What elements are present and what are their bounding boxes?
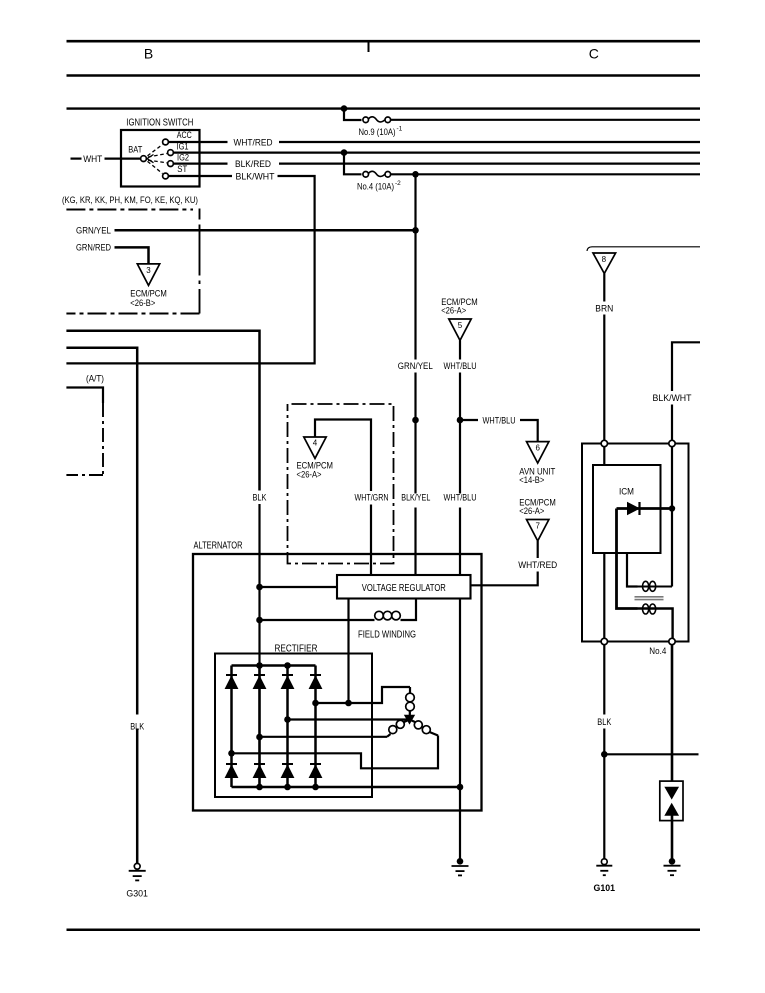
field winding coil: [375, 611, 384, 620]
spark gap arrows: [665, 787, 678, 798]
wire bottom border line: [67, 928, 701, 931]
wire WHT/RED from connector 7 to voltage regulator: [537, 541, 539, 558]
ground G101: [601, 859, 607, 865]
svg-text:BLK: BLK: [253, 493, 267, 503]
fuse No.9: [363, 117, 369, 123]
svg-text:3: 3: [146, 266, 151, 275]
wire alternator case ground: [459, 787, 461, 859]
svg-text:BRN: BRN: [595, 303, 613, 313]
svg-text:IGNITION SWITCH: IGNITION SWITCH: [126, 118, 193, 129]
svg-text:WHT/RED: WHT/RED: [518, 560, 557, 570]
svg-text:(A/T): (A/T): [86, 373, 104, 383]
switch contact ST: [163, 173, 169, 179]
terminal circles top: [601, 440, 607, 446]
svg-text:No.4: No.4: [649, 646, 666, 656]
svg-text:VOLTAGE REGULATOR: VOLTAGE REGULATOR: [362, 583, 446, 594]
wire dash-dot bottom of 26-B branch: [66, 313, 199, 315]
wire stator phase 1: [316, 687, 411, 703]
alternator box: [193, 554, 482, 811]
node junction diode-BLK/WHT: [669, 505, 675, 511]
svg-text:(KG, KR, KK, PH, KM, FO, KE, K: (KG, KR, KK, PH, KM, FO, KE, KQ, KU): [62, 195, 198, 205]
switch contact IG2: [168, 161, 174, 167]
diode ICM output: [617, 507, 670, 510]
ground spark tester: [669, 858, 676, 865]
wire IG1 row: [200, 152, 701, 154]
svg-text:No.9 (10A): No.9 (10A): [359, 127, 396, 137]
svg-text:5: 5: [458, 321, 463, 330]
wire BLK main vertical in alternator: [258, 504, 260, 787]
wire second bus line: [67, 74, 701, 77]
wire secondary to spark tester: [671, 645, 674, 787]
stator coil 1: [409, 687, 411, 694]
rectifier bottom bus: [232, 786, 461, 789]
node junction stator phase1 tap: [312, 700, 319, 707]
svg-text:IG2: IG2: [177, 153, 189, 163]
node junction stator neutral tap: [284, 716, 291, 723]
svg-text:BAT: BAT: [128, 144, 143, 154]
ground alternator case: [457, 858, 464, 865]
spark tester box: [660, 781, 683, 821]
voltage regulator box: [337, 575, 471, 599]
svg-text:G101: G101: [594, 883, 616, 893]
svg-text:C: C: [589, 45, 599, 61]
rectifier branch 4: [314, 666, 317, 788]
svg-text:<14-B>: <14-B>: [519, 475, 544, 485]
wire BLK to voltage regulator: [260, 586, 338, 588]
wire battery feed line to fuse No.9: [67, 107, 701, 109]
node junctions bottom bus: [256, 784, 263, 791]
svg-text:BLK/WHT: BLK/WHT: [236, 171, 276, 181]
wire WHT/BLU tap to AVN UNIT: [460, 419, 478, 421]
svg-text:BLK: BLK: [597, 717, 611, 727]
wire top bus line B/C: [67, 40, 701, 43]
rectifier top bus: [232, 664, 316, 667]
wire stator phase 2: [260, 736, 388, 738]
rectifier box: [215, 654, 372, 798]
svg-text:WHT/BLU: WHT/BLU: [483, 415, 516, 425]
node junction WHT/BLU to AVN tap: [457, 417, 464, 424]
wire fuse No.9 drop: [344, 109, 362, 120]
svg-text:ACC: ACC: [177, 130, 193, 140]
svg-text:GRN/YEL: GRN/YEL: [398, 361, 433, 371]
svg-text:G301: G301: [126, 889, 148, 899]
switch contact IG1: [168, 150, 174, 156]
field winding wire left: [260, 619, 375, 621]
svg-text:6: 6: [535, 444, 540, 453]
svg-text:BLK: BLK: [130, 721, 144, 731]
svg-text:4: 4: [313, 439, 318, 448]
wire IG2 / BLK/RED row: [200, 163, 228, 165]
diode top row: [226, 675, 321, 688]
svg-text:No.4 (10A): No.4 (10A): [357, 182, 394, 192]
node junction branch3-top bus: [284, 662, 291, 669]
svg-text:ICM: ICM: [619, 486, 634, 496]
svg-text:<26-A>: <26-A>: [441, 305, 466, 315]
wire fuse No.4 drop: [344, 153, 362, 175]
connector 6 AVN UNIT 14-B: [527, 442, 549, 463]
wire left BLK feeder (to alternator): [66, 331, 259, 491]
connector 7 ECM/PCM 26-A: [527, 520, 549, 541]
node junction GRN/YEL to vertical: [412, 227, 419, 234]
wire VR bottom WHT/BLU continuation to case ground bus: [459, 599, 461, 787]
node junction BLK-field winding: [256, 617, 263, 624]
wire stator phase 3: [232, 736, 439, 769]
node junction BLK ground bus: [601, 751, 608, 758]
svg-text:WHT/BLU: WHT/BLU: [444, 493, 477, 503]
svg-text:WHT: WHT: [83, 154, 103, 164]
wire (A/T) branch: [66, 388, 103, 404]
svg-text:BLK/YEL: BLK/YEL: [401, 493, 430, 503]
distributor outer box: [582, 444, 689, 642]
svg-text:GRN/RED: GRN/RED: [76, 243, 111, 253]
node junction VR drop to phase1: [345, 700, 352, 707]
wire WHT/GRN hook to connector 4: [315, 420, 371, 492]
rectifier branch 2: [258, 666, 261, 788]
wire BRN into ICM: [603, 447, 605, 465]
svg-text:WHT/GRN: WHT/GRN: [355, 493, 389, 503]
wire stator neutral: [288, 718, 410, 720]
node junction fuse No.4 output to GRN/YEL drop: [412, 171, 419, 178]
wire BLK/WHT branch to distributor: [672, 342, 700, 391]
wire dashed vertical 26-B branch: [199, 209, 201, 220]
node junction BLK-VR: [256, 584, 263, 591]
rectifier branch 1: [230, 666, 233, 788]
ignition coil core: [635, 596, 664, 598]
svg-text:GRN/YEL: GRN/YEL: [76, 226, 111, 236]
stator coil 2: [387, 734, 391, 737]
wire ICM to bottom terminal: [603, 553, 605, 638]
node stator Y center: [405, 715, 415, 723]
svg-text:ST: ST: [177, 164, 188, 174]
svg-text:BLK/WHT: BLK/WHT: [653, 393, 693, 403]
svg-text:-1: -1: [397, 126, 403, 133]
ground G301: [134, 863, 140, 869]
wire BLK/WHT into coil: [671, 447, 673, 587]
wire WHT lead: [71, 158, 82, 160]
ignition switch box: [121, 130, 200, 187]
fuse No.4: [363, 172, 369, 178]
svg-text:<26-B>: <26-B>: [130, 298, 155, 308]
node junction BLK-top bus: [256, 662, 263, 669]
wire dash-dot under (KG...) text: [66, 209, 193, 211]
ignition coil secondary: [638, 607, 661, 609]
svg-text:7: 7: [535, 522, 540, 531]
wire spark tester to ground: [671, 815, 674, 858]
svg-text:B: B: [144, 45, 153, 61]
rectifier branch 3: [286, 666, 289, 788]
wire GRN/YEL-BLK/YEL vertical from fuse No.4: [414, 174, 416, 359]
svg-text:WHT/BLU: WHT/BLU: [444, 361, 477, 371]
wire ST / BLK/WHT row: [200, 175, 233, 177]
connector 5 ECM/PCM 26-A: [449, 319, 471, 340]
ignition coil primary: [627, 553, 638, 587]
field winding wire right to VR: [401, 599, 417, 621]
svg-text:RECTIFIER: RECTIFIER: [275, 644, 318, 655]
terminal circles bottom: [601, 638, 607, 644]
wire GRN/YEL row: [115, 229, 416, 232]
wire BRN from connector 8: [603, 274, 605, 302]
node tick center top: [368, 41, 370, 52]
wire fuse No.9 output: [391, 119, 700, 121]
switch contact ACC: [163, 139, 169, 145]
svg-text:<26-A>: <26-A>: [297, 470, 322, 480]
connector 4 ECM/PCM 26-A: [304, 437, 326, 458]
wire thick diode to secondary coil: [617, 509, 638, 609]
svg-text:8: 8: [602, 255, 607, 264]
svg-text:WHT/RED: WHT/RED: [234, 137, 273, 147]
switch wiper dashed lines: [148, 145, 168, 174]
wire ground bus stub: [604, 753, 698, 755]
switch contact BAT: [141, 156, 147, 162]
svg-text:ALTERNATOR: ALTERNATOR: [194, 541, 243, 552]
svg-text:<26-A>: <26-A>: [519, 506, 544, 516]
svg-text:BLK/RED: BLK/RED: [235, 159, 271, 169]
connector 8: [593, 253, 616, 274]
node junction at fuse No.9 tap: [341, 105, 348, 112]
wire BLK to G101: [603, 645, 605, 715]
node junction stator phase3 tap: [228, 750, 235, 757]
wire GRN/RED to connector 3: [115, 247, 149, 264]
ICM box: [593, 465, 661, 553]
svg-text:FIELD WINDING: FIELD WINDING: [358, 630, 416, 641]
wire WHT/BLU from connector 5: [459, 340, 461, 359]
node junction at fuse No.4 tap: [341, 149, 348, 156]
stator coil 3: [410, 720, 416, 723]
wire VR bottom to stator tap: [347, 599, 349, 704]
node junction stator phase2 tap: [256, 734, 263, 741]
connector 3 ECM/PCM 26-B: [137, 264, 159, 286]
switch wiper arrow: [147, 155, 154, 163]
dashed box ECM/PCM 26-A: [288, 404, 394, 564]
svg-text:-2: -2: [395, 180, 401, 187]
wire left BLK to G301: [66, 348, 137, 715]
svg-text:IG1: IG1: [177, 141, 189, 151]
wire ACC / WHT/RED row: [200, 141, 228, 143]
node junction on GRN/YEL-BLK/YEL vertical: [412, 417, 419, 424]
diode bottom row: [226, 764, 321, 777]
wire thin top line at connector 8: [587, 247, 700, 251]
wire fuse No.4 output: [391, 173, 700, 175]
